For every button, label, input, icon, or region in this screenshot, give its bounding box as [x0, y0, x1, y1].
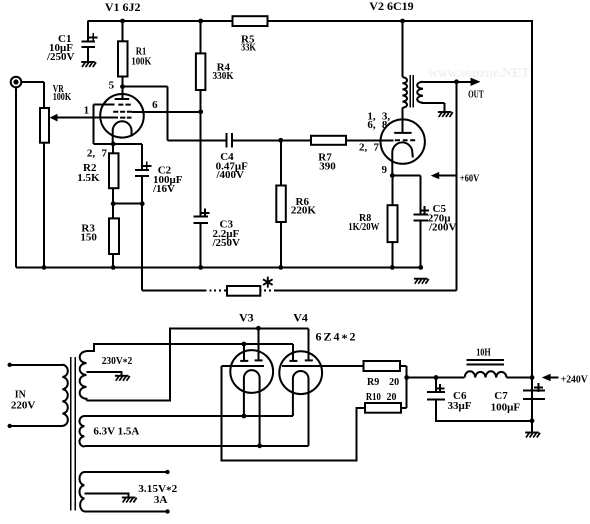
wire feedback horizontal right solid	[276, 290, 457, 292]
arrow OUT (points right)	[471, 78, 481, 86]
svg-text:6,: 6,	[367, 119, 376, 131]
potentiometer VR 100K body	[40, 108, 49, 143]
resistor R1 stem top	[122, 21, 124, 41]
wire feedback dotted left	[205, 290, 226, 292]
wire into C4 left	[168, 139, 227, 141]
wire V3 left anode stem	[243, 344, 245, 361]
tube V4 envelope	[279, 351, 322, 394]
junction dot V3 right anode on wire1	[256, 326, 261, 331]
wire choke to right rail	[507, 377, 533, 379]
svg-text:/16V: /16V	[152, 183, 175, 195]
wire power primary bottom lead	[10, 425, 63, 427]
svg-text:R10: R10	[366, 392, 381, 403]
wire V1 g3 to left rectangle top	[94, 104, 115, 106]
V4 left anode bar	[289, 360, 297, 362]
V1 grid g2 dashes	[113, 111, 132, 113]
wire left rectangle bottom to cathode node	[94, 143, 114, 145]
resistor R8 stem top	[391, 176, 393, 206]
wire feedback column from cathode node down	[141, 204, 143, 291]
capacitor C4 plates (film)	[226, 133, 232, 148]
svg-text:1K/20W: 1K/20W	[348, 222, 379, 233]
wire R4 bottom down to C3	[200, 112, 202, 217]
svg-text:/200V: /200V	[428, 222, 457, 234]
capacitor C6 plates	[427, 392, 445, 400]
junction dot node 5	[120, 84, 125, 89]
V3 left anode bar	[240, 360, 248, 362]
resistor R2 stem bottom	[112, 188, 114, 204]
svg-text:www.sonzne.NET: www.sonzne.NET	[428, 65, 530, 80]
wire 230V centre tap	[87, 372, 122, 376]
svg-text:+60V: +60V	[460, 174, 480, 185]
junction dot 3.15V terminal bottom	[165, 509, 169, 513]
junction dot C6 top	[434, 375, 439, 380]
power primary winding	[62, 365, 68, 426]
wire C2 stem bottom	[141, 176, 143, 204]
junction dot C4-R6-R7	[278, 138, 283, 143]
svg-text:V4: V4	[293, 311, 308, 325]
junction dot bus C5 ground	[418, 265, 423, 270]
capacitor C5 plates	[414, 215, 428, 221]
choke core line 1	[467, 359, 505, 361]
capacitor C1 plates	[81, 42, 95, 47]
more sections appended below	[10, 75, 532, 512]
wire V4 cathode bar to R9	[282, 365, 363, 367]
choke core line 2	[467, 364, 505, 366]
svg-text:+240V: +240V	[561, 375, 588, 386]
wire OPT secondary bottom to ground	[444, 103, 446, 112]
svg-text:/400V: /400V	[216, 169, 245, 181]
wire OPT secondary bottom lead	[422, 102, 445, 104]
capacitor C3 plates	[194, 216, 208, 223]
ground 230V centre tap	[115, 376, 130, 381]
wire V4 right anode stem	[308, 328, 310, 360]
wire 3.15V top lead	[85, 471, 168, 473]
V1 grid g1 dashes	[120, 117, 131, 119]
wire OUT node to arrow	[457, 81, 472, 83]
svg-text:1: 1	[84, 105, 90, 117]
ground 3.15V centre tap	[122, 498, 137, 503]
wire R2 bottom to C2 bottom	[113, 203, 142, 205]
wire R9 right lead	[400, 365, 407, 367]
resistor R4 stem bottom	[200, 90, 202, 112]
junction dot pin6/R4/C3	[198, 109, 203, 114]
wire input jack ground down	[15, 87, 17, 267]
junction dot bus R8	[390, 265, 395, 270]
wire VR wiper arrow line to V1 grid	[56, 117, 118, 119]
resistor R8 1K/20W	[388, 205, 398, 242]
resistor R5 33K	[233, 16, 268, 26]
V4 right anode bar	[305, 359, 313, 361]
V4 heater	[293, 371, 309, 446]
resistor R8 stem bottom	[391, 242, 393, 267]
capacitor C3 stem bottom to ground bus	[200, 223, 202, 267]
arrow +60V (points left)	[431, 172, 440, 179]
wire feedback rail vertical	[456, 82, 458, 291]
wire V2 cathode node to C5	[392, 175, 420, 177]
svg-text:220K: 220K	[291, 205, 317, 217]
V2 grid dashes	[395, 139, 415, 141]
junction dot V2 cathode pin9	[390, 173, 395, 178]
wire heater bus A 6.3V top	[85, 415, 293, 417]
wire B+ junction to choke	[407, 377, 465, 379]
wire V1 pin6 to R4 bottom	[132, 111, 201, 113]
svg-text:33μF: 33μF	[448, 400, 472, 412]
wire V1 cathode node to C2	[113, 143, 142, 145]
svg-text:V1 6J2: V1 6J2	[105, 0, 141, 14]
svg-text:V3: V3	[239, 311, 254, 325]
junction dot R9R10 to B+	[404, 375, 409, 380]
resistor feedback star	[227, 286, 260, 296]
wire 230V top lead jog	[87, 344, 294, 351]
wire C2 stem top	[141, 144, 143, 170]
plus sign C1	[89, 33, 98, 42]
junction dot V3 left anode on wire2	[242, 342, 247, 347]
OPT core line right	[412, 75, 414, 108]
resistor R1 100K	[118, 41, 128, 76]
wire top B+ rail right of R5	[268, 20, 534, 22]
capacitor C1 stem top	[87, 21, 89, 42]
capacitor C1 stem bottom	[87, 47, 89, 62]
capacitor C6 stem bottom	[436, 400, 532, 421]
svg-text:3A: 3A	[154, 494, 168, 506]
resistor R4 330K	[196, 53, 206, 90]
wire V3 right anode stem	[257, 328, 259, 360]
junction dot primary terminal top	[8, 363, 12, 367]
V3 heater	[244, 370, 260, 446]
resistor R7 390	[311, 136, 346, 145]
svg-text:33K: 33K	[241, 42, 256, 54]
arrow VR wiper (points left at pot)	[50, 114, 58, 122]
wire R10 right lead	[401, 407, 407, 409]
svg-text:7: 7	[102, 148, 108, 160]
wire 3.15V bottom lead	[85, 511, 168, 513]
resistor R6 stem bottom	[280, 222, 282, 267]
svg-text:20: 20	[389, 377, 399, 388]
power 6.3V winding	[79, 416, 84, 447]
plus sign C5	[420, 206, 429, 215]
resistor R4 stem top	[200, 21, 202, 53]
wire OPT primary top lead to B+ rail	[402, 21, 404, 77]
plus sign C7	[534, 383, 543, 392]
wire right rail vertical	[531, 21, 533, 433]
wire heater bus B 6.3V bottom	[85, 445, 309, 447]
svg-text:OUT: OUT	[468, 90, 484, 101]
svg-text:7: 7	[374, 141, 380, 153]
svg-text:2,: 2,	[359, 141, 368, 153]
svg-text:9: 9	[382, 164, 388, 176]
svg-text:R9: R9	[367, 377, 379, 388]
svg-text:5: 5	[109, 79, 115, 91]
resistor R3 stem bottom	[112, 254, 114, 267]
wire V3 cathode bar	[222, 365, 264, 367]
V2 plate	[394, 132, 411, 134]
OPT primary winding	[402, 77, 407, 108]
wire 230V bottom lead	[87, 328, 309, 400]
ground right rail bottom	[525, 433, 540, 438]
OPT core line left	[409, 75, 411, 108]
junction dot OUT node	[454, 79, 459, 84]
capacitor C2 plates	[135, 170, 149, 176]
junction dot R2C2 bottom right	[140, 201, 145, 206]
resistor R3 stem top	[112, 204, 114, 219]
V1 plate	[115, 98, 130, 100]
svg-text:220V: 220V	[11, 400, 36, 412]
V2 cathode	[392, 142, 413, 175]
arrow +240V (points left)	[542, 374, 551, 382]
capacitor C6 stem top	[435, 378, 437, 393]
svg-text:390: 390	[319, 161, 336, 173]
V1 cathode	[113, 121, 132, 144]
svg-text:/250V: /250V	[46, 51, 75, 63]
svg-text:150: 150	[80, 232, 97, 244]
tube V3 envelope	[230, 350, 273, 393]
wire OPT secondary top lead to OUT node	[422, 81, 457, 83]
wire +60V arrow line	[438, 175, 456, 177]
wire V4 left anode stem	[292, 344, 294, 361]
wire +240V arrow line	[550, 377, 559, 379]
wire C4 right to R7	[232, 139, 311, 141]
junction dot R4 top	[198, 19, 203, 24]
wire V2 plate stem to OPT primary	[402, 108, 404, 133]
wire node 5 to C4 vertical	[167, 87, 169, 141]
plus sign C2	[142, 162, 151, 171]
wire C5 stem top	[420, 176, 422, 215]
svg-text:100μF: 100μF	[491, 402, 521, 414]
power transformer core line left	[70, 357, 72, 511]
svg-text:6: 6	[152, 99, 158, 111]
resistor R2 1.5K	[109, 153, 119, 188]
junction dot bus VR	[42, 265, 47, 270]
power transformer core line right	[74, 357, 76, 511]
junction dot R1 top	[120, 19, 125, 24]
OPT secondary winding	[417, 82, 423, 103]
junction dot bus C3	[198, 265, 203, 270]
svg-text:V2 6C19: V2 6C19	[369, 0, 413, 13]
svg-text:6.3V 1.5A: 6.3V 1.5A	[93, 426, 139, 438]
wire node 5 to C4 horizontal	[123, 86, 168, 88]
capacitor C7 stem top	[531, 378, 533, 391]
tube V1 envelope	[100, 94, 144, 138]
resistor R2 stem top	[112, 144, 114, 153]
V1 grid g3 dashes	[118, 104, 131, 106]
svg-text:8: 8	[382, 119, 388, 131]
svg-text:100K: 100K	[131, 55, 151, 67]
resistor R1 stem bottom to node 5 and V1 plate	[122, 77, 124, 100]
svg-text:/250V: /250V	[212, 237, 241, 249]
wire left rectangle vertical	[93, 105, 95, 144]
junction dot V3 left heater on bus A	[242, 414, 247, 419]
resistor R6 220K	[276, 186, 286, 223]
resistor R9 20	[364, 361, 401, 371]
ground bus right (C5)	[414, 279, 429, 284]
svg-text:C7: C7	[494, 390, 508, 402]
capacitor C7 plates	[523, 391, 545, 399]
junction dot bus R6	[278, 265, 283, 270]
power 230V winding	[80, 351, 87, 400]
junction dot R2C2 bottom left	[111, 201, 116, 206]
wire C5 stem bottom to ground bus	[420, 221, 422, 268]
junction dot primary terminal bottom	[8, 424, 12, 428]
capacitor C7 stem bottom	[531, 399, 533, 421]
svg-text:100K: 100K	[53, 91, 72, 103]
wire R9-R10 junction vertical	[406, 366, 408, 408]
junction dot V1 cathode	[111, 142, 116, 147]
junction dot right rail C7 bottom	[530, 418, 535, 423]
junction dot V3 right heater on bus B	[257, 443, 262, 448]
wire input jack to VR top	[21, 81, 44, 83]
power 3.15V winding	[80, 472, 85, 512]
svg-text:1.5K: 1.5K	[77, 172, 100, 184]
wire ground bus	[16, 266, 421, 268]
input jack	[11, 77, 22, 88]
wire top B+ rail left of R5	[88, 20, 233, 22]
plus sign C6	[436, 384, 445, 393]
resistor R3 150	[109, 218, 119, 254]
wire 3.15V centre tap	[85, 494, 129, 498]
svg-text:330K: 330K	[213, 70, 234, 82]
tube V2 envelope	[381, 119, 425, 163]
wire power primary top lead	[10, 364, 63, 366]
junction dot right rail B+	[530, 375, 535, 380]
plus sign C3	[201, 209, 210, 218]
resistor R10 20	[365, 403, 401, 413]
wire feedback dotted right	[261, 290, 276, 292]
wire feedback horizontal left solid	[142, 290, 206, 292]
junction dot OPT primary top	[400, 19, 405, 24]
junction dot 3.15V terminal top	[165, 470, 169, 474]
resistor R6 stem top	[280, 140, 282, 185]
ground C1	[81, 62, 96, 67]
V3 right anode bar	[255, 359, 263, 361]
wire VR top stem	[43, 82, 45, 108]
svg-text:20: 20	[387, 392, 397, 403]
svg-text:10H: 10H	[476, 346, 491, 358]
wire VR bottom stem to ground bus	[43, 143, 45, 268]
svg-text:230V*2: 230V*2	[102, 355, 133, 369]
wire R7 to V2 grid	[346, 139, 394, 141]
choke 10H winding	[465, 371, 507, 377]
wire V3 cathode down	[222, 366, 365, 461]
svg-text:2,: 2,	[87, 148, 96, 160]
star marker feedback resistor	[263, 277, 273, 288]
ground OPT secondary	[438, 112, 453, 117]
junction dot bus R3	[111, 265, 116, 270]
